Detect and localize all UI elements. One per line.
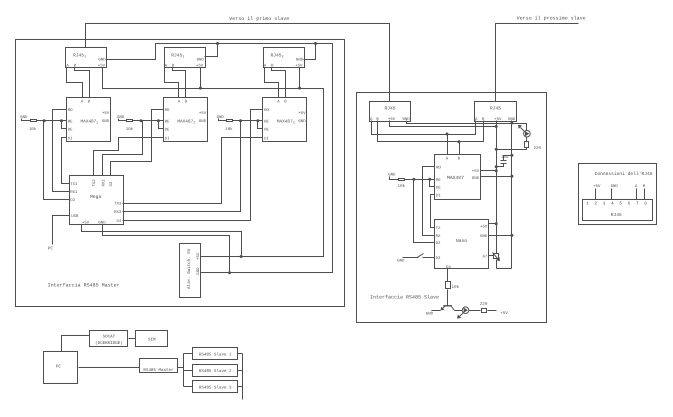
- svg-text:+5V: +5V: [98, 64, 106, 69]
- svg-text:8: 8: [644, 201, 647, 206]
- svg-text:RO: RO: [165, 108, 170, 113]
- svg-text:GND: GND: [472, 176, 480, 181]
- svg-text:RS485 Master: RS485 Master: [143, 368, 174, 373]
- svg-text:D3: D3: [436, 256, 441, 261]
- svg-text:+5V: +5V: [199, 111, 207, 116]
- svg-text:TX3: TX3: [114, 202, 122, 207]
- svg-text:GND: GND: [426, 312, 434, 317]
- svg-text:DI: DI: [436, 194, 441, 199]
- svg-text:DE: DE: [68, 127, 73, 132]
- svg-text:MAX487: MAX487: [447, 175, 464, 181]
- svg-text:TX2: TX2: [92, 179, 97, 187]
- svg-text:GND: GND: [98, 58, 106, 63]
- svg-text:GND: GND: [611, 184, 619, 189]
- svg-text:+5V: +5V: [82, 221, 90, 226]
- svg-text:MAX4873: MAX4873: [277, 119, 295, 124]
- svg-text:Verso il prossimo slave: Verso il prossimo slave: [517, 16, 586, 22]
- svg-text:D4: D4: [116, 219, 121, 224]
- svg-text:4: 4: [611, 201, 614, 206]
- svg-text:TX: TX: [436, 226, 441, 231]
- svg-text:RO: RO: [264, 108, 269, 113]
- svg-text:RX2: RX2: [102, 179, 107, 187]
- svg-text:Nano: Nano: [456, 238, 467, 244]
- svg-text:Connessioni dell'RJ45: Connessioni dell'RJ45: [595, 171, 653, 177]
- svg-text:DI: DI: [68, 137, 73, 142]
- svg-text:GND: GND: [296, 58, 304, 63]
- svg-text:+5V: +5V: [196, 64, 204, 69]
- svg-text:GND: GND: [397, 259, 405, 264]
- svg-text:PC: PC: [56, 365, 62, 370]
- svg-text:RO: RO: [436, 165, 441, 170]
- svg-text:5: 5: [619, 201, 622, 206]
- svg-text:220: 220: [534, 146, 542, 151]
- svg-text:+5V: +5V: [196, 252, 201, 260]
- svg-text:MAX4872: MAX4872: [177, 119, 195, 124]
- svg-text:RX: RX: [436, 234, 441, 239]
- svg-text:Verso il primo slave: Verso il primo slave: [229, 16, 289, 22]
- svg-text:+5V: +5V: [480, 224, 488, 229]
- svg-text:+5V: +5V: [298, 111, 306, 116]
- svg-text:GND: GND: [480, 234, 488, 239]
- svg-text:+5V: +5V: [593, 184, 601, 189]
- svg-text:RE: RE: [264, 120, 269, 125]
- svg-text:TX1: TX1: [70, 182, 78, 187]
- svg-text:GND: GND: [298, 119, 306, 124]
- svg-text:D2: D2: [436, 241, 441, 246]
- svg-text:1: 1: [586, 201, 589, 206]
- svg-text:RJ45: RJ45: [384, 105, 395, 111]
- svg-text:+5V: +5V: [494, 117, 502, 122]
- svg-text:RE: RE: [436, 178, 441, 183]
- svg-text:PC: PC: [48, 246, 54, 251]
- svg-text:RX3: RX3: [114, 210, 122, 215]
- svg-text:RJ45: RJ45: [490, 105, 501, 111]
- svg-text:10k: 10k: [126, 127, 134, 132]
- svg-text:D4: D4: [446, 265, 451, 270]
- svg-text:3: 3: [603, 201, 606, 206]
- svg-text:+5V: +5V: [500, 311, 508, 316]
- svg-text:7: 7: [636, 201, 639, 206]
- svg-text:D3: D3: [109, 181, 114, 186]
- svg-text:DI: DI: [165, 137, 170, 142]
- svg-text:SOCAT: SOCAT: [103, 335, 116, 340]
- svg-text:GND: GND: [102, 119, 110, 124]
- svg-text:DE: DE: [436, 185, 441, 190]
- svg-text:6: 6: [628, 201, 631, 206]
- svg-text:Mega: Mega: [90, 194, 101, 200]
- svg-text:SIM: SIM: [148, 338, 156, 343]
- svg-text:USB: USB: [71, 214, 79, 219]
- svg-text:RE: RE: [68, 120, 73, 125]
- svg-text:+5V: +5V: [102, 111, 110, 116]
- svg-text:+5V: +5V: [472, 169, 480, 174]
- svg-text:RX1: RX1: [70, 190, 78, 195]
- svg-text:D2: D2: [70, 198, 75, 203]
- svg-text:DE: DE: [165, 127, 170, 132]
- svg-text:Interfaccia RS485 Master: Interfaccia RS485 Master: [48, 283, 120, 289]
- svg-text:RJ45: RJ45: [611, 212, 622, 218]
- svg-text:DE: DE: [264, 127, 269, 132]
- svg-text:GND: GND: [196, 267, 201, 275]
- svg-text:RE: RE: [165, 120, 170, 125]
- svg-text:2: 2: [594, 201, 597, 206]
- svg-text:A7: A7: [482, 255, 487, 260]
- svg-text:RO: RO: [68, 108, 73, 113]
- svg-text:GND: GND: [197, 58, 205, 63]
- svg-text:DI: DI: [264, 137, 269, 142]
- svg-text:MAX4871: MAX4871: [81, 119, 99, 124]
- svg-text:GND: GND: [199, 119, 207, 124]
- svg-text:GND: GND: [217, 115, 225, 120]
- svg-text:220: 220: [480, 302, 488, 307]
- svg-text:10u: 10u: [501, 155, 509, 160]
- svg-text:Interfaccia RS485 Slave: Interfaccia RS485 Slave: [370, 295, 439, 301]
- svg-text:10k: 10k: [225, 127, 233, 132]
- svg-text:10k: 10k: [29, 127, 37, 132]
